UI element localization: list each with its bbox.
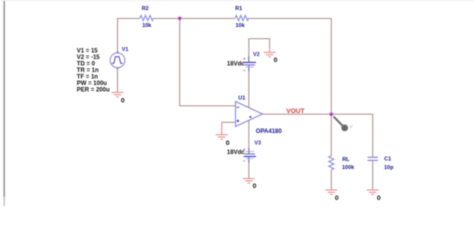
op-amp U1 triangle [236,102,263,127]
wire V3 minus terminal down to ground [248,157,250,179]
ground symbol right of V2 [264,48,276,57]
wire V1 bottom terminal to ground [117,68,119,93]
resistor RL [329,156,334,170]
DC source V3 symbol (battery) [243,148,256,163]
wire C1 bottom to ground [372,161,374,190]
svg-text:0: 0 [377,195,381,202]
resistor R2 [140,15,154,20]
svg-text:18Vdc: 18Vdc [227,150,245,156]
svg-text:OPA4180: OPA4180 [256,129,283,135]
ground symbol under V1 [112,92,124,97]
wire RL bottom to ground [330,170,332,190]
ground symbol under V3 [243,179,255,184]
svg-text:V2 = -15: V2 = -15 [77,55,101,61]
svg-text:V3: V3 [254,141,261,147]
ground symbol under RL [325,190,337,195]
U1 power pin marker [250,116,252,118]
ground symbol under C1 [367,190,379,195]
svg-text:18Vdc: 18Vdc [227,61,245,67]
wire V2 minus terminal down to U1 V+ power pin [248,65,250,107]
svg-text:R2: R2 [142,6,149,12]
wire R2 pin 2 to R1 pin 1 (inverting node net) [153,17,235,19]
U1 inverting input minus marker [237,106,240,108]
svg-text:0: 0 [226,140,230,147]
svg-text:PER = 200u: PER = 200u [77,87,110,93]
svg-text:0: 0 [335,195,339,202]
svg-text:0: 0 [274,57,278,64]
svg-text:C1: C1 [384,157,391,163]
svg-text:TR = 1n: TR = 1n [77,68,99,74]
wire U1 output to VOUT junction [263,113,332,115]
ground symbol at U1 non-inverting input [216,135,228,140]
svg-text:R1: R1 [235,6,242,12]
svg-text:RL: RL [342,157,350,163]
wire feedback tap down and right to U1 inverting input [180,18,236,105]
node junction: feedback tap between R2 and R1 [177,16,182,21]
svg-text:100k: 100k [342,165,355,171]
wire V2 plus terminal up and right to ground [249,39,270,63]
svg-text:VOUT: VOUT [286,108,304,115]
svg-text:PW = 100u: PW = 100u [77,81,108,87]
svg-text:V1: V1 [122,47,129,53]
svg-text:TD = 0: TD = 0 [77,62,96,68]
svg-text:V2: V2 [253,52,260,58]
svg-text:0: 0 [253,183,257,190]
svg-text:0: 0 [121,98,125,105]
resistor R1 [235,15,249,20]
svg-text:TF = 1n: TF = 1n [77,75,99,81]
svg-text:10p: 10p [384,165,394,171]
wire VOUT junction down to RL top [330,114,332,156]
wire R1 pin 2 right then down to VOUT junction [249,18,332,114]
svg-text:V1 = 15: V1 = 15 [77,49,99,55]
U1 non-inverting input plus marker [237,120,240,123]
voltage probe marker at VOUT [334,117,353,132]
svg-text:10k: 10k [236,23,246,29]
svg-text:10k: 10k [142,23,152,29]
wire U1 non-inverting input stub [222,121,236,123]
svg-text:V: V [350,124,353,129]
wire VOUT junction right and down to C1 top [331,114,372,157]
V1 pulse parameter list [77,49,110,94]
svg-text:U1: U1 [238,95,245,101]
node junction: VOUT net [329,112,334,117]
wire U1 V- power pin down to V3 plus terminal [248,120,250,153]
capacitor C1 [368,157,379,160]
wire V1 top terminal up and right to R2 pin 1 [118,18,140,53]
pulse source V1 symbol [110,51,125,69]
DC source V2 symbol (battery) [243,56,256,72]
wire non-inverting input down to ground [221,122,223,134]
